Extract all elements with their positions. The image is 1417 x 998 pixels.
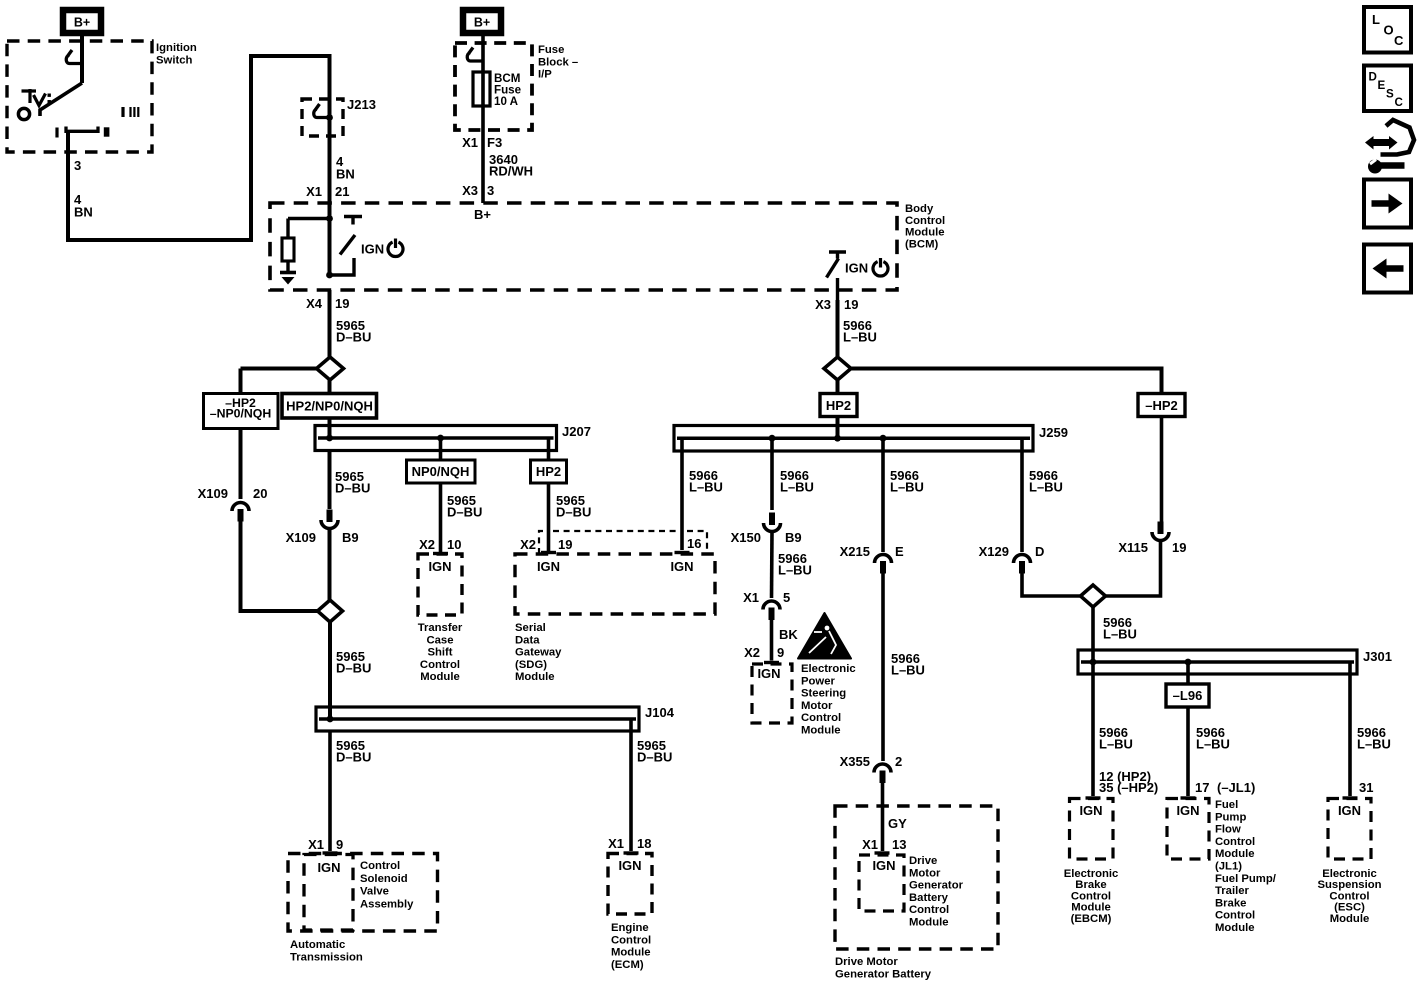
svg-text:Switch: Switch <box>156 54 193 66</box>
wire 5966 L-BU (BCM to splice 3) <box>836 300 840 357</box>
svg-text:L–BU: L–BU <box>1357 737 1391 752</box>
label J259 <box>1039 425 1068 440</box>
svg-text:13: 13 <box>892 837 906 852</box>
label Fuel Pump Flow Control Module (JL1) Fuel Pump/Trailer Brake Control Module <box>1215 799 1277 934</box>
svg-text:Control: Control <box>1215 836 1255 848</box>
wire 5965 D-BU to transfer case <box>433 483 448 554</box>
svg-text:Control: Control <box>611 934 651 946</box>
svg-text:X109: X109 <box>286 530 316 545</box>
label Electronic Power Steering Motor Control Module <box>801 663 856 737</box>
svg-text:(EBCM): (EBCM) <box>1071 913 1112 925</box>
junction (BCM internal) <box>326 215 333 222</box>
wire label 5965 D-BU <box>447 493 482 520</box>
label BCM Fuse 10 A <box>494 72 522 108</box>
svg-text:IGN: IGN <box>1079 803 1102 818</box>
svg-text:X355: X355 <box>840 754 870 769</box>
nav icon LOC <box>1364 7 1411 53</box>
svg-text:Fuel Pump/: Fuel Pump/ <box>1215 873 1277 885</box>
svg-text:IGN: IGN <box>537 559 560 574</box>
svg-text:IGN: IGN <box>872 858 895 873</box>
label X109 B9 <box>286 530 359 545</box>
svg-text:Module: Module <box>611 947 651 959</box>
serial data gateway module box <box>515 531 715 614</box>
svg-text:D–BU: D–BU <box>335 481 370 496</box>
wire -HP2 to X115 <box>1160 417 1164 523</box>
svg-text:BK: BK <box>779 627 798 642</box>
svg-text:IGN: IGN <box>317 860 340 875</box>
svg-text:L–BU: L–BU <box>780 480 814 495</box>
svg-text:L–BU: L–BU <box>1103 627 1137 642</box>
svg-text:D–BU: D–BU <box>637 750 672 765</box>
label J301 <box>1363 649 1392 664</box>
wire BCM internal bus <box>288 203 330 275</box>
wire label 5966 L-BU <box>780 468 814 495</box>
svg-text:BN: BN <box>74 204 93 219</box>
BCM pin X4 19 <box>306 296 349 311</box>
junction J259 center <box>834 435 841 442</box>
svg-text:Transfer: Transfer <box>418 622 463 634</box>
wire 5966 L-BU (J301 to EBCM) <box>1086 662 1101 798</box>
label X150 B9 <box>731 530 802 545</box>
svg-text:(ESC): (ESC) <box>1334 902 1365 914</box>
svg-text:Battery: Battery <box>909 892 949 904</box>
nav icon back arrow <box>1364 245 1411 293</box>
connector X355 pin 2 <box>874 764 891 783</box>
svg-text:L–BU: L–BU <box>843 330 877 345</box>
svg-text:X1: X1 <box>306 184 322 199</box>
svg-text:X129: X129 <box>979 544 1009 559</box>
svg-text:19: 19 <box>1172 540 1186 555</box>
svg-text:Electronic: Electronic <box>1322 868 1377 880</box>
svg-text:Generator: Generator <box>909 880 964 892</box>
pins X3 3 <box>462 183 494 198</box>
svg-text:5: 5 <box>783 590 790 605</box>
nav icon forward arrow <box>1364 180 1411 228</box>
warning triangle (EPS caution) <box>798 613 851 659</box>
fuel pump flow control module (IGN) <box>1167 799 1209 860</box>
wire label 5965 D-BU <box>335 469 370 496</box>
svg-text:D–BU: D–BU <box>556 505 591 520</box>
electronic power steering motor control module (IGN) <box>752 664 792 723</box>
svg-text:Data: Data <box>515 634 540 646</box>
svg-text:Control: Control <box>420 659 460 671</box>
label X215 E <box>840 544 904 559</box>
svg-text:IGN: IGN <box>361 242 384 257</box>
svg-text:10 A: 10 A <box>494 95 519 108</box>
pins X1 F3 <box>462 135 502 150</box>
pin 31 <box>1359 780 1373 795</box>
switch IGN (BCM left) <box>326 217 362 279</box>
label X129 D <box>979 544 1045 559</box>
label Automatic Transmission <box>290 939 363 963</box>
svg-text:Serial: Serial <box>515 622 546 634</box>
svg-text:IGN: IGN <box>428 559 451 574</box>
wire label GY <box>888 816 907 831</box>
wire X129 to splice 4 <box>1022 566 1080 596</box>
svg-text:Assembly: Assembly <box>360 898 414 910</box>
BCM pin X1 21 <box>306 184 349 199</box>
svg-text:21: 21 <box>335 184 349 199</box>
wire X109-20 to splice 2 <box>241 514 318 611</box>
svg-text:E: E <box>1378 79 1386 92</box>
svg-text:Automatic: Automatic <box>290 939 345 951</box>
wire 5965 D-BU (J207 down) <box>328 451 332 510</box>
svg-text:X150: X150 <box>731 530 761 545</box>
svg-text:Control: Control <box>360 860 400 872</box>
svg-text:Control: Control <box>1215 910 1255 922</box>
svg-text:L: L <box>1372 12 1380 27</box>
wire label 5966 L-BU <box>1357 725 1391 752</box>
svg-text:B9: B9 <box>785 530 802 545</box>
svg-text:Power: Power <box>801 675 836 687</box>
svg-text:L–BU: L–BU <box>1029 480 1063 495</box>
svg-text:19: 19 <box>558 537 572 552</box>
wire GY (X355 to DMGB) <box>875 776 890 853</box>
connector X1 pin 5 <box>763 601 780 620</box>
splice diamond 3 <box>824 357 1162 394</box>
label Ignition Switch <box>156 42 197 66</box>
connector X109 pin 20 <box>232 503 249 522</box>
svg-text:Control: Control <box>909 904 949 916</box>
svg-text:J207: J207 <box>562 424 591 439</box>
svg-text:IGN: IGN <box>757 666 780 681</box>
svg-text:Flow: Flow <box>1215 824 1241 836</box>
svg-text:X1: X1 <box>743 590 759 605</box>
pin 17 (-JL1) <box>1195 780 1255 795</box>
svg-text:16: 16 <box>687 536 701 551</box>
svg-text:J301: J301 <box>1363 649 1392 664</box>
control solenoid valve assembly (IGN) <box>304 855 353 931</box>
svg-text:3: 3 <box>74 158 81 173</box>
label Engine Control Module (ECM) <box>611 922 651 971</box>
pins X2 9 <box>744 645 784 660</box>
node B+ (inside BCM) <box>474 207 491 222</box>
junction J104 left <box>327 716 334 723</box>
svg-text:(BCM): (BCM) <box>905 238 938 250</box>
svg-text:3: 3 <box>487 183 494 198</box>
svg-text:Case: Case <box>426 634 453 646</box>
electronic suspension control module (IGN) <box>1328 799 1371 860</box>
svg-text:Gateway: Gateway <box>515 647 562 659</box>
ground (BCM internal) <box>280 273 296 285</box>
svg-text:Block –: Block – <box>538 56 578 68</box>
svg-text:RD/WH: RD/WH <box>489 164 533 179</box>
option box NP0/NQH <box>407 460 476 483</box>
connector J213 <box>302 99 343 203</box>
svg-text:19: 19 <box>335 296 349 311</box>
svg-text:HP2: HP2 <box>826 398 851 413</box>
pin 3 label <box>74 158 81 173</box>
svg-text:9: 9 <box>777 645 784 660</box>
wire J207 to HP2 box <box>547 438 551 460</box>
svg-text:Control: Control <box>801 712 841 724</box>
option box HP2 (J207) <box>531 460 567 483</box>
wire 5966 L-BU (J301 to ESC) <box>1343 662 1358 798</box>
svg-text:X1: X1 <box>862 837 878 852</box>
svg-text:C: C <box>1394 33 1404 48</box>
power symbol (left) <box>388 239 403 257</box>
B+ terminal (fuse block feed) <box>463 10 501 33</box>
svg-text:Electronic: Electronic <box>1064 868 1119 880</box>
svg-text:B9: B9 <box>342 530 359 545</box>
wire 5965 D-BU (J104 to automatic transmission) <box>323 731 338 853</box>
drive motor generator battery control module (IGN) <box>859 855 904 911</box>
svg-text:X3: X3 <box>462 183 478 198</box>
svg-text:F3: F3 <box>487 135 502 150</box>
label Drive Motor Generator Battery <box>835 956 932 980</box>
svg-text:D–BU: D–BU <box>336 330 371 345</box>
power symbol (right) <box>873 258 888 276</box>
svg-text:D: D <box>1369 71 1377 84</box>
svg-text:35 (–HP2): 35 (–HP2) <box>1099 780 1158 795</box>
wire 5966 L-BU (J259 to X150) <box>770 438 774 510</box>
wire label 5966 L-BU <box>890 468 924 495</box>
junction J259 b2 <box>769 435 776 442</box>
pin 16 <box>687 536 701 551</box>
wire 5966 L-BU (J259 to X215) <box>881 438 885 552</box>
wire BK (X1 to EPS) <box>764 613 779 663</box>
svg-text:I/P: I/P <box>538 69 552 81</box>
wire 5965 D-BU (J104 to ECM) <box>624 719 639 853</box>
svg-text:Shift: Shift <box>427 647 452 659</box>
pins X2 19 <box>520 537 572 552</box>
splice diamond 2 <box>318 600 343 622</box>
pins X1 9 <box>308 837 343 852</box>
wire B+ through fuse to BCM <box>481 36 485 203</box>
junction J259 b3 <box>880 435 887 442</box>
option box HP2/NP0/NQH <box>282 380 377 438</box>
svg-text:J213: J213 <box>347 97 376 112</box>
svg-text:Module: Module <box>905 227 945 239</box>
fuse block I/P box <box>455 43 532 130</box>
svg-text:10: 10 <box>447 537 461 552</box>
wire -HP2 branch to X109 <box>239 429 243 500</box>
svg-text:Module: Module <box>1330 913 1370 925</box>
svg-text:Pump: Pump <box>1215 811 1246 823</box>
svg-text:O: O <box>1384 23 1394 38</box>
wire B+ to ignition switch <box>80 36 84 83</box>
svg-text:S: S <box>1386 88 1394 101</box>
bus bar J259 <box>674 426 1033 452</box>
label Serial Data Gateway (SDG) Module <box>515 622 562 683</box>
svg-text:Module: Module <box>1215 922 1255 934</box>
svg-text:BN: BN <box>336 166 355 181</box>
svg-text:Solenoid: Solenoid <box>360 873 408 885</box>
svg-text:–HP2: –HP2 <box>1145 398 1178 413</box>
svg-text:J259: J259 <box>1039 425 1068 440</box>
label Control Solenoid Valve Assembly <box>360 860 414 910</box>
svg-text:X1: X1 <box>308 837 324 852</box>
svg-text:Module: Module <box>1071 902 1111 914</box>
wire J207 to NP0/NQH box <box>439 438 443 460</box>
wire 5966 L-BU (X215 to X355) <box>881 566 885 761</box>
svg-text:X3: X3 <box>815 297 831 312</box>
wire ignition switch pin 3, circuit 4 BN <box>68 56 330 240</box>
svg-text:(–JL1): (–JL1) <box>1217 780 1255 795</box>
svg-text:L–BU: L–BU <box>1196 737 1230 752</box>
svg-text:Steering: Steering <box>801 688 846 700</box>
B+ terminal (ignition switch feed) <box>63 10 101 33</box>
svg-text:B+: B+ <box>74 16 90 30</box>
label X115 19 <box>1118 540 1186 555</box>
option box HP2 <box>820 380 857 438</box>
svg-text:IGN: IGN <box>845 261 868 276</box>
junction J207 mid <box>437 435 444 442</box>
junction J301 mid <box>1185 659 1192 666</box>
svg-text:Module: Module <box>801 725 841 737</box>
svg-text:E: E <box>895 544 904 559</box>
svg-text:Brake: Brake <box>1215 897 1246 909</box>
wire 5965 D-BU (splice 2 to J104) <box>328 622 332 719</box>
pins X2 10 <box>419 537 461 552</box>
svg-text:20: 20 <box>253 486 267 501</box>
label J104 <box>645 705 675 720</box>
wire 5965 D-BU (BCM to splice) <box>328 290 332 357</box>
ignition switch <box>7 41 152 152</box>
bus bar J301 <box>1078 650 1357 674</box>
BCM pin X3 19 <box>815 297 858 312</box>
wire label 5966 L-BU <box>778 551 812 578</box>
option box -L96 <box>1166 684 1209 707</box>
pins X1 18 <box>608 836 651 851</box>
svg-text:Transmission: Transmission <box>290 951 363 963</box>
svg-text:Ignition: Ignition <box>156 42 197 54</box>
svg-text:Module: Module <box>1215 848 1255 860</box>
svg-text:GY: GY <box>888 816 907 831</box>
svg-text:2: 2 <box>895 754 902 769</box>
svg-text:Brake: Brake <box>1075 879 1106 891</box>
svg-text:Module: Module <box>420 671 460 683</box>
svg-text:Fuse: Fuse <box>538 44 564 56</box>
wire label 4 BN (below J213) <box>336 154 355 181</box>
svg-text:Drive Motor: Drive Motor <box>835 956 898 968</box>
svg-text:HP2: HP2 <box>536 464 561 479</box>
option box -HP2 -NP0/NQH <box>204 394 279 429</box>
label Electronic Suspension Control (ESC) Module <box>1317 868 1381 925</box>
wire X109-B9 to splice 2 <box>328 529 332 600</box>
svg-text:X2: X2 <box>744 645 760 660</box>
svg-text:17: 17 <box>1195 780 1209 795</box>
label X355 2 <box>840 754 903 769</box>
svg-text:X2: X2 <box>520 537 536 552</box>
svg-text:31: 31 <box>1359 780 1373 795</box>
connector X215 pin E <box>875 555 892 574</box>
svg-text:X2: X2 <box>419 537 435 552</box>
wire 5966 L-BU (J259 to X129) <box>1020 438 1024 552</box>
connector X129 pin D <box>1014 555 1031 574</box>
electronic brake control module (IGN) <box>1070 799 1114 860</box>
wire 5966 L-BU (X150 to X1) <box>770 532 774 598</box>
svg-text:Engine: Engine <box>611 922 649 934</box>
wire label 3640 RD/WH <box>489 152 533 179</box>
svg-text:–L96: –L96 <box>1173 688 1203 703</box>
svg-text:X1: X1 <box>462 135 478 150</box>
svg-text:Fuel: Fuel <box>1215 799 1238 811</box>
svg-text:L–BU: L–BU <box>689 480 723 495</box>
wire 5965 D-BU to SDG pin 19 <box>541 483 556 553</box>
wire label 5966 L-BU <box>891 651 925 678</box>
svg-text:Motor: Motor <box>909 867 941 879</box>
svg-text:(ECM): (ECM) <box>611 959 644 971</box>
wire 5966 L-BU (-L96 to fuel pump module) <box>1181 707 1196 798</box>
svg-text:–NP0/NQH: –NP0/NQH <box>210 407 272 421</box>
label Transfer Case Shift Control Module <box>418 622 463 683</box>
svg-text:Control: Control <box>905 215 945 227</box>
svg-text:Drive: Drive <box>909 855 937 867</box>
nav icon schematic/wrench <box>1365 120 1414 174</box>
label Fuse Block I/P <box>538 44 578 81</box>
svg-text:IGN: IGN <box>1176 803 1199 818</box>
svg-text:L–BU: L–BU <box>1099 737 1133 752</box>
label Body Control Module (BCM) <box>905 203 945 250</box>
svg-text:Electronic: Electronic <box>801 663 856 675</box>
nav icon DESC <box>1364 66 1411 112</box>
svg-text:L–BU: L–BU <box>890 480 924 495</box>
svg-text:NP0/NQH: NP0/NQH <box>412 464 470 479</box>
wire label 5965 D-BU <box>637 738 672 765</box>
splice diamond 4 <box>1081 585 1106 607</box>
fuse BCM Fuse 10 A <box>473 72 490 106</box>
svg-text:Body: Body <box>905 203 934 215</box>
svg-text:(JL1): (JL1) <box>1215 861 1242 873</box>
svg-text:18: 18 <box>637 836 651 851</box>
svg-text:HP2/NP0/NQH: HP2/NP0/NQH <box>286 399 373 414</box>
wire label 5965 D-BU <box>336 318 371 345</box>
label X1 5 <box>743 590 790 605</box>
svg-text:(SDG): (SDG) <box>515 659 547 671</box>
wire label 5966 L-BU <box>1103 615 1137 642</box>
wire label 4 BN <box>74 192 93 219</box>
svg-text:Suspension: Suspension <box>1317 879 1381 891</box>
junction J207 left <box>326 435 333 442</box>
label Drive Motor Generator Battery Control Module <box>909 855 964 929</box>
svg-text:B+: B+ <box>474 16 490 30</box>
wire J301 to -L96 <box>1186 662 1190 684</box>
svg-text:X109: X109 <box>198 486 228 501</box>
svg-text:Generator Battery: Generator Battery <box>835 968 932 980</box>
wire label 5966 L-BU <box>1099 725 1133 752</box>
label IGN (left) <box>361 242 384 257</box>
label J213 <box>347 97 376 112</box>
svg-text:J104: J104 <box>645 705 675 720</box>
label X109 20 <box>198 486 268 501</box>
svg-text:B+: B+ <box>474 207 491 222</box>
wire X115 to splice 4 <box>1106 541 1161 596</box>
connector X115 pin 19 <box>1152 522 1169 541</box>
svg-text:IGN: IGN <box>1338 803 1361 818</box>
svg-text:X1: X1 <box>608 836 624 851</box>
Body Control Module (BCM) box <box>270 203 897 290</box>
svg-text:Motor: Motor <box>801 700 833 712</box>
engine control module (IGN) <box>608 854 652 915</box>
svg-text:X4: X4 <box>306 296 323 311</box>
svg-text:D–BU: D–BU <box>336 661 371 676</box>
svg-text:X115: X115 <box>1118 540 1148 555</box>
svg-text:Trailer: Trailer <box>1215 885 1250 897</box>
transfer case shift control module (IGN) <box>418 554 462 615</box>
connector X109 pin B9 <box>321 510 338 529</box>
wire label 5966 L-BU <box>689 468 723 495</box>
label IGN (right) <box>845 261 868 276</box>
option box -HP2 <box>1138 394 1185 417</box>
wire 5966 L-BU (splice 4 to J301) <box>1091 607 1095 662</box>
svg-text:D–BU: D–BU <box>447 505 482 520</box>
wire label BK <box>779 627 798 642</box>
svg-text:L–BU: L–BU <box>891 663 925 678</box>
svg-text:Valve: Valve <box>360 886 389 898</box>
wire label 5966 L-BU <box>1196 725 1230 752</box>
bus bar J104 <box>316 707 639 731</box>
